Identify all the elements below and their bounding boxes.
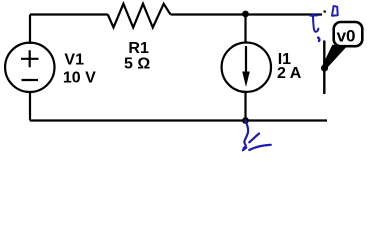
label R1 bbox=[128, 40, 149, 57]
svg-text:2 A: 2 A bbox=[277, 65, 302, 82]
node v0 dot bbox=[321, 64, 328, 71]
junction dot bottom (ground node) bbox=[242, 117, 249, 124]
pen dot black bbox=[323, 10, 326, 13]
value 5 ohm bbox=[124, 56, 150, 73]
wire I1 top lead bbox=[244, 15, 246, 43]
svg-text:5 Ω: 5 Ω bbox=[124, 56, 150, 73]
label I1 bbox=[278, 51, 291, 68]
svg-text:v0: v0 bbox=[337, 27, 356, 46]
svg-text:V1: V1 bbox=[64, 52, 84, 69]
annotation minus scribble (blue, bottom) bbox=[243, 121, 271, 151]
junction dot top (node between R1 and I1) bbox=[242, 11, 249, 18]
value 10 V bbox=[63, 69, 96, 86]
label V1 bbox=[64, 52, 84, 69]
svg-text:10 V: 10 V bbox=[63, 69, 96, 86]
wire bottom-left vertical (V1 bottom to bottom rail) bbox=[29, 93, 31, 121]
annotation delta scribble (blue) bbox=[332, 6, 338, 16]
wire top-left vertical (V1 top to top rail) bbox=[29, 15, 31, 45]
resistor R1 bbox=[108, 4, 171, 28]
current source I1 bbox=[222, 42, 271, 91]
value 2 A bbox=[277, 65, 302, 82]
voltage source V1 bbox=[5, 43, 54, 92]
wire top rail right (resistor to wire end) bbox=[171, 13, 323, 15]
wire top rail left (corner to resistor) bbox=[30, 13, 108, 15]
node label v0 callout bubble bbox=[323, 22, 363, 69]
wire bottom rail bbox=[30, 119, 327, 121]
annotation plus scribble (blue, top right) bbox=[311, 15, 320, 41]
wire probe vertical (node v0) bbox=[323, 41, 325, 95]
wire I1 bottom lead bbox=[244, 93, 246, 121]
